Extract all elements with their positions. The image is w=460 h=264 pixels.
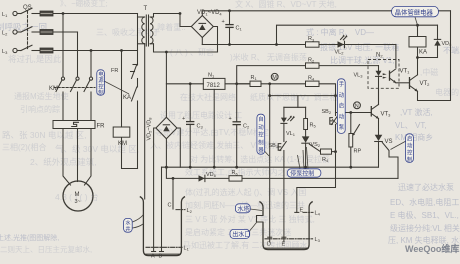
wire electrode E short drop (295, 152, 336, 214)
svg-text:对 为比转筹、选出点达 KA (1-2) 受拉箭: 对 为比转筹、选出点达 KA (1-2) 受拉箭 (190, 154, 330, 164)
wire gate junction (332, 151, 336, 153)
tower electrode E tip (282, 237, 286, 247)
svg-text:启: 启 (407, 134, 412, 142)
svg-text:FR: FR (111, 68, 118, 74)
callout start control (391, 134, 414, 164)
svg-text:E: E (282, 242, 286, 248)
svg-text:C: C (168, 203, 172, 209)
wire VT3 collector up (378, 88, 380, 104)
junction +12V out (235, 82, 238, 85)
junction VS2 cathode rail (304, 166, 307, 169)
wire +12 branch up and right (277, 25, 438, 44)
wire secondary top to bridge rail (154, 14, 181, 18)
contactor KM linkage (49, 86, 95, 92)
junction secondary rail (179, 12, 182, 15)
junction C1 bottom (228, 43, 231, 46)
svg-text:,中磁: ,中磁 (420, 67, 438, 77)
wire sensing line start (166, 167, 398, 178)
wire motor lead a (63, 129, 71, 186)
motor M 3-phase (63, 181, 93, 211)
wire node N row (336, 112, 372, 114)
wire KM coil top to L3 (121, 51, 123, 128)
junction L3 to KM coil feed (120, 49, 123, 52)
resistor R4 (306, 76, 320, 87)
svg-text:制: 制 (98, 89, 103, 97)
svg-text:VL3: VL3 (354, 73, 364, 79)
junction RP tap (349, 111, 352, 114)
svg-text:三 V 5 亚 外对 某 V? 等比 三 独特式,: 三 V 5 亚 外对 某 V? 等比 三 独特式, (185, 214, 315, 224)
wire KM coil loop (122, 137, 138, 168)
svg-text:动: 动 (339, 92, 345, 99)
svg-text:N2: N2 (376, 53, 383, 59)
svg-text:C1: C1 (236, 26, 243, 32)
relay contact KA (NO) (123, 87, 138, 169)
wire primary-side drop line (144, 44, 146, 199)
svg-text:出水口: 出水口 (232, 230, 250, 238)
svg-text:SB2: SB2 (322, 109, 332, 115)
svg-text:R4: R4 (322, 157, 329, 163)
svg-text:引响点的踪: 引响点的踪 (20, 104, 60, 114)
svg-text:制: 制 (258, 138, 263, 146)
svg-text:上述,光推(图图解除,: 上述,光推(图图解除, (0, 233, 59, 242)
node L3 terminal (2, 48, 17, 55)
wire L3 rail (32, 50, 138, 52)
svg-text:R5: R5 (310, 123, 317, 129)
junction on L1 rail (62, 12, 65, 15)
wire VS2 gate (309, 144, 320, 151)
transformer T primary winding (138, 17, 145, 44)
well tank outline (140, 197, 185, 256)
svg-text:M: M (272, 75, 277, 81)
node L2 terminal (2, 30, 17, 37)
svg-text:KM: KM (118, 141, 127, 147)
svg-text:KM: KM (49, 86, 58, 92)
wire node M drop (269, 84, 271, 96)
junction node M lower (268, 94, 271, 97)
svg-text:QS: QS (23, 5, 32, 11)
wire motor lead c (85, 129, 92, 186)
wire bridge1 bottom to DC rail (201, 38, 203, 45)
junction rail C3 (189, 166, 192, 169)
junction SB2 feed (334, 94, 337, 97)
svg-text:,VT 激活,: ,VT 激活, (400, 107, 433, 117)
tower tank outline (259, 202, 312, 250)
svg-text:R4: R4 (308, 76, 315, 82)
junction node M (268, 82, 271, 85)
wire bridge2 bottom to common rail (165, 139, 167, 168)
wire M-row horizontal (270, 95, 336, 97)
svg-text:比调干球,光源 V1,: 比调干球,光源 V1, (330, 55, 394, 65)
wire electrode C (168, 178, 174, 209)
wire DC rail y44 (202, 44, 391, 46)
wire +raw top rail (202, 10, 450, 12)
callout water outlet (230, 223, 257, 239)
svg-text:R6: R6 (232, 170, 239, 176)
tower level line L4 (303, 211, 321, 217)
junction C1 top (228, 9, 231, 12)
callout manual start pump (332, 79, 345, 134)
thyristor VS2 (302, 130, 321, 168)
thermal contact FR (NC) (111, 65, 138, 88)
svg-text:级运接分纯:VL 相关、VI: 级运接分纯:VL 相关、VI (390, 223, 460, 233)
callout water tower (235, 204, 262, 213)
switch QS linkage (27, 11, 29, 49)
svg-text:VT2: VT2 (420, 81, 431, 87)
potentiometer RP (349, 113, 362, 168)
transistor VT2 (410, 75, 431, 92)
svg-text:RP: RP (354, 149, 362, 155)
junction gate resistor right (334, 150, 337, 153)
svg-text:+: + (222, 19, 225, 25)
thermal relay FR heater box (53, 121, 105, 130)
voltage regulator N1 7812 (203, 73, 225, 90)
svg-text:R3: R3 (308, 36, 315, 42)
wire 7812 ground pin (213, 89, 215, 167)
wire VT2 emitter path (418, 11, 451, 101)
wire phase drop b (77, 32, 79, 77)
LED VL1 (281, 107, 296, 137)
callout transistor relay (392, 6, 439, 25)
svg-text:N: N (355, 104, 359, 110)
contactor KM main contact c (84, 77, 93, 121)
svg-text:等原V建分平达,由TV,不稳M构定: 等原V建分平达,由TV,不稳M构定 (155, 127, 269, 137)
resistor R6 (229, 170, 242, 181)
svg-text:启: 启 (339, 102, 344, 110)
well level line L2 (176, 208, 193, 214)
svg-text:R1: R1 (251, 75, 258, 81)
svg-text:水: 水 (125, 218, 131, 226)
junction AC drop (165, 51, 168, 54)
svg-text:VT3: VT3 (381, 112, 392, 118)
wire phase drop c (90, 51, 92, 78)
svg-text:控: 控 (98, 82, 104, 90)
svg-text:电器的: 电器的 (435, 87, 459, 97)
svg-text:FR: FR (97, 124, 106, 130)
wire to bridge1 left vertex (180, 14, 191, 27)
common rail ground (162, 166, 379, 168)
pushbutton SB1 (269, 123, 287, 150)
wire R3 row to opto collector (391, 45, 396, 68)
node N marker (354, 102, 361, 110)
junction electrode C tap (172, 177, 175, 180)
wire VS gate zigzag (382, 143, 398, 179)
wire electrode D drop (269, 96, 271, 242)
wire 7812 output (225, 83, 250, 85)
wire VT1 emitter to VT2 base (396, 82, 410, 84)
svg-text:迅速了必达水泵: 迅速了必达水泵 (398, 182, 454, 192)
svg-text:M: M (75, 192, 80, 198)
capacitor C2 (229, 84, 250, 167)
phototransistor VT1 (390, 69, 411, 84)
svg-text:+: + (229, 116, 232, 122)
junction rail bridge2 (165, 166, 168, 169)
callout water well (124, 215, 144, 233)
svg-text:A: A (151, 254, 155, 260)
wire motor lead b (77, 129, 79, 182)
fuse FU3 (40, 48, 53, 53)
wire L1 rail (32, 13, 138, 15)
resistor R5 (304, 107, 317, 129)
svg-text:B: B (159, 254, 163, 260)
wire VT3 emitter to VS anode (378, 119, 380, 135)
svg-text:+: + (182, 116, 185, 122)
wire SB1 to electrode E (283, 151, 285, 243)
transformer T secondary winding (150, 17, 153, 44)
svg-text:停泵控制: 停泵控制 (290, 169, 314, 177)
wire bridge1 top to +raw rail (201, 11, 203, 16)
svg-text:三、吸收之用可于: 三、吸收之用可于 (96, 27, 160, 37)
junction rail 7812 (213, 166, 216, 169)
svg-text:控: 控 (258, 131, 264, 139)
junction on L3 rail (90, 49, 93, 52)
svg-text:器: 器 (258, 147, 264, 154)
svg-text:路、张 30N 电以越 区,: 路、张 30N 电以越 区, (2, 130, 87, 140)
svg-text:在技大社是网络: 在技大社是网络 (180, 92, 236, 102)
junction RP bottom rail (349, 166, 352, 169)
resistor R3 (306, 36, 320, 47)
optocoupler N2 dashed box (368, 53, 399, 89)
well electrode A tip (151, 252, 156, 260)
svg-text:T: T (144, 6, 148, 12)
diode VD6 (199, 172, 217, 182)
svg-text:SB1: SB1 (269, 143, 279, 149)
svg-text:VS2: VS2 (311, 142, 321, 148)
svg-text:VL、 VT,: VL、 VT, (395, 121, 427, 130)
tower outlet pipe (257, 216, 264, 223)
diode VD5 (434, 25, 452, 57)
svg-text:L3: L3 (2, 49, 8, 55)
svg-text:动: 动 (258, 124, 264, 131)
callout stop pump control (287, 147, 321, 177)
thyristor VS (375, 135, 393, 168)
resistor R1 (237, 75, 261, 87)
tower level line L3 (265, 237, 321, 243)
relay coil KA (409, 25, 427, 57)
svg-text:L3: L3 (315, 237, 321, 243)
wire 7812 input (166, 83, 203, 85)
bridge rectifier VD1~VD4 (191, 10, 222, 37)
svg-text:R2: R2 (308, 57, 315, 63)
svg-text:KA: KA (419, 50, 427, 56)
capacitor C3 (182, 84, 203, 167)
junction rail C2 (235, 166, 238, 169)
wire bridge2 right vertex drop (177, 128, 180, 167)
svg-text:面制迷因数迷失读退:: 面制迷因数迷失读退: (0, 120, 1, 199)
svg-text:VS: VS (385, 139, 393, 145)
tower electrode D tip (267, 237, 272, 247)
svg-text:7812: 7812 (207, 83, 221, 89)
svg-text:三相(2)(相合: 三相(2)(相合 (2, 142, 46, 152)
svg-text:L2: L2 (2, 31, 8, 37)
svg-text:)米收 R、 无调音振荡: )米收 R、 无调音振荡 (230, 52, 307, 62)
svg-text:VT1: VT1 (400, 69, 411, 75)
svg-text:式 : 中离 R、 VD—: 式 : 中离 R、 VD— (306, 27, 374, 37)
opto LED VL3 (354, 66, 387, 105)
switch QS pole 2 (17, 27, 32, 32)
well level line L1 (146, 246, 190, 252)
wire VL1 loop feed (297, 96, 299, 108)
svg-text:L1: L1 (184, 246, 190, 252)
transformer T core (144, 6, 149, 46)
svg-text:晶体管继电器: 晶体管继电器 (395, 7, 434, 16)
svg-text:源: 源 (98, 76, 104, 84)
fuse FU2 (40, 30, 53, 35)
svg-text:手: 手 (339, 80, 345, 88)
node L1 terminal (2, 11, 17, 18)
wire bridge2 left vertex to electrode A (154, 128, 156, 252)
node M marker (271, 73, 278, 81)
svg-text:文 X、圆锥 R、VD~VT 天地,: 文 X、圆锥 R、VD~VT 天地, (235, 0, 337, 9)
svg-text:VD5~VD8: VD5~VD8 (147, 117, 153, 141)
svg-text:ED、水电阻,电阻工,E。: ED、水电阻,电阻工,E。 (390, 197, 460, 207)
wire AC drop to bridge2 (165, 52, 167, 117)
resistor R4 gate (321, 149, 332, 163)
svg-text:N1: N1 (208, 73, 215, 79)
LED VL2 (335, 35, 348, 56)
wire bridge1 right vertex to AC run (213, 27, 217, 53)
svg-text:D: D (267, 242, 271, 248)
svg-text:VL2: VL2 (335, 50, 345, 56)
svg-text:C2: C2 (243, 124, 250, 130)
bridge rectifier VD5~VD8 (147, 117, 177, 141)
wire R1 to node M (261, 83, 308, 85)
svg-text:WeeQoo维库: WeeQoo维库 (405, 243, 459, 254)
junction KA bottom (416, 56, 419, 59)
callout power control (97, 70, 129, 97)
svg-text:VD5: VD5 (442, 41, 453, 47)
svg-text:动: 动 (407, 142, 413, 149)
fuse FU1 (40, 11, 53, 16)
wire KA bottom link (418, 57, 438, 59)
svg-text:水塔: 水塔 (237, 205, 249, 213)
wire secondary bottom AC run (154, 44, 218, 52)
svg-text:自: 自 (258, 115, 263, 123)
well electrode B tip (159, 252, 164, 260)
wire R4 to SB2 drop (319, 84, 336, 96)
junction C3 top (189, 82, 192, 85)
svg-text:泵: 泵 (339, 124, 345, 131)
svg-text:L1: L1 (2, 12, 8, 18)
pushbutton SB2 (322, 96, 338, 152)
svg-text:报银 15V 电压, 一联箱: 报银 15V 电压, 一联箱 (320, 42, 399, 52)
wire electrode B riser (161, 167, 163, 251)
svg-text:VD6: VD6 (206, 172, 217, 178)
svg-text:体(过孔的选迷人起 ()、调 VS 入国: 体(过孔的选迷人起 ()、调 VS 入国 (185, 187, 306, 197)
contactor KM main contact b (71, 77, 80, 121)
svg-text:VL1: VL1 (286, 131, 296, 137)
svg-text:通报M适生地使: 通报M适生地使 (14, 91, 69, 101)
wire VT2 collector to KA (417, 58, 419, 75)
callout auto controller (257, 114, 269, 156)
resistor R2 (306, 57, 320, 68)
contactor KM main contact a (56, 77, 65, 121)
svg-text:井: 井 (125, 225, 130, 233)
capacitor C1 (222, 11, 243, 45)
wire phase drop a (62, 14, 64, 78)
wire L2 rail (32, 31, 78, 33)
wire +12V up to R2 row (237, 66, 379, 84)
svg-text:KM 相商乡: KM 相商乡 (395, 132, 433, 142)
svg-text:》、−硼极变工;: 》、−硼极变工; (60, 0, 108, 8)
transformer T primary feed from L1 (137, 14, 139, 66)
svg-text:制: 制 (407, 155, 412, 163)
svg-text:动: 动 (339, 113, 345, 120)
svg-text:电: 电 (98, 70, 104, 78)
svg-text:E 电极、SB1、VL., R.: E 电极、SB1、VL., R. (390, 210, 460, 220)
switch QS pole 1 (17, 5, 32, 14)
svg-text:L4: L4 (315, 211, 321, 217)
junction +12 branch (275, 43, 278, 46)
svg-text:将过孔,是因此: 将过孔,是因此 (8, 54, 62, 64)
contactor coil KM (113, 127, 130, 147)
svg-text:3~: 3~ (75, 199, 81, 205)
svg-text:L2: L2 (187, 208, 193, 214)
svg-text:KA: KA (123, 95, 131, 101)
transistor VT3 (371, 105, 391, 119)
svg-text:C3: C3 (197, 124, 204, 130)
watermark (405, 243, 459, 254)
switch QS pole 3 (17, 45, 32, 50)
junction KA top (416, 24, 419, 27)
svg-text:二则天上、日压主元复邮水,: 二则天上、日压主元复邮水, (0, 244, 92, 254)
svg-text:控: 控 (407, 148, 413, 156)
wire VL1 loop top (284, 106, 306, 108)
